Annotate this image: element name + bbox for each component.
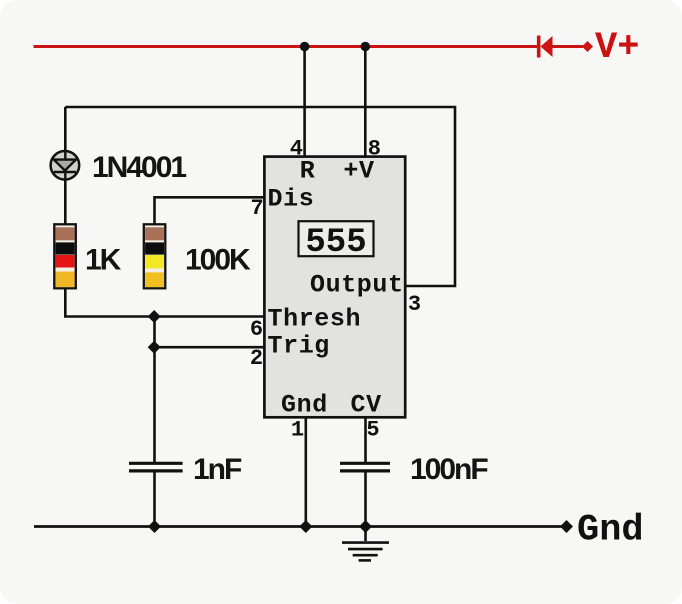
svg-text:555: 555 (305, 224, 366, 262)
svg-text:Dis: Dis (268, 185, 315, 214)
svg-text:4: 4 (290, 137, 303, 162)
svg-text:3: 3 (408, 292, 421, 317)
svg-text:2: 2 (250, 346, 263, 371)
svg-text:100nF: 100nF (410, 453, 488, 486)
svg-text:CV: CV (351, 390, 382, 419)
svg-text:Gnd: Gnd (281, 390, 328, 419)
svg-text:6: 6 (250, 317, 263, 342)
svg-text:1N4001: 1N4001 (92, 151, 186, 184)
svg-text:Trig: Trig (268, 332, 330, 361)
svg-text:100K: 100K (185, 243, 251, 276)
svg-text:1K: 1K (85, 243, 122, 276)
svg-text:Thresh: Thresh (268, 304, 362, 333)
svg-text:V+: V+ (595, 27, 639, 69)
svg-text:1: 1 (291, 418, 304, 443)
svg-text:1nF: 1nF (193, 453, 242, 486)
svg-text:8: 8 (368, 137, 381, 162)
svg-text:Output: Output (310, 271, 404, 300)
svg-text:Gnd: Gnd (577, 510, 644, 552)
svg-text:7: 7 (250, 196, 263, 221)
svg-text:5: 5 (366, 418, 379, 443)
